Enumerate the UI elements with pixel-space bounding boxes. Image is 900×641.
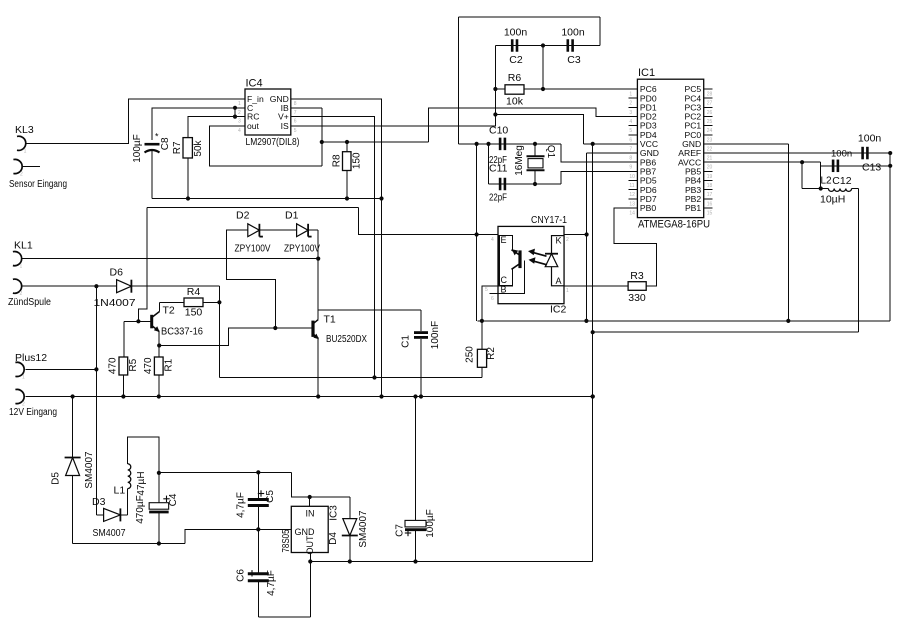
svg-text:SM4007: SM4007 <box>93 527 126 539</box>
svg-text:D2: D2 <box>236 210 250 222</box>
svg-text:8: 8 <box>629 156 632 162</box>
svg-text:R7: R7 <box>172 141 183 154</box>
svg-text:26: 26 <box>707 110 713 116</box>
svg-text:14: 14 <box>629 210 635 216</box>
svg-text:R2: R2 <box>486 347 497 360</box>
svg-text:6: 6 <box>491 296 494 302</box>
svg-text:D4: D4 <box>328 532 339 545</box>
svg-text:22: 22 <box>707 146 713 152</box>
svg-text:4,7µF: 4,7µF <box>266 570 277 596</box>
svg-text:100n: 100n <box>561 27 585 39</box>
svg-text:6: 6 <box>629 137 632 143</box>
svg-text:6: 6 <box>294 119 297 125</box>
svg-text:470: 470 <box>143 357 154 374</box>
svg-text:*: * <box>155 132 159 142</box>
svg-text:5: 5 <box>629 128 632 134</box>
svg-text:OUT: OUT <box>305 535 315 555</box>
svg-text:C7: C7 <box>395 524 406 537</box>
svg-text:24: 24 <box>707 128 713 134</box>
svg-text:C13: C13 <box>862 162 881 174</box>
svg-text:C6: C6 <box>236 569 247 582</box>
svg-text:KL1: KL1 <box>14 240 33 252</box>
svg-text:4: 4 <box>491 237 494 243</box>
svg-text:7: 7 <box>294 110 297 116</box>
svg-text:K: K <box>555 236 561 246</box>
svg-text:out: out <box>247 121 260 131</box>
svg-text:78S05: 78S05 <box>281 529 292 552</box>
svg-text:T1: T1 <box>324 314 336 326</box>
svg-text:22pF: 22pF <box>489 193 507 204</box>
svg-text:C: C <box>501 275 508 285</box>
svg-text:R6: R6 <box>508 72 522 84</box>
svg-text:L1: L1 <box>114 485 126 497</box>
svg-text:10k: 10k <box>506 96 524 108</box>
svg-text:IC3: IC3 <box>329 505 340 521</box>
svg-text:R8: R8 <box>332 154 343 167</box>
svg-text:17: 17 <box>707 192 713 198</box>
svg-text:47µH: 47µH <box>136 471 147 495</box>
svg-text:2: 2 <box>629 101 632 107</box>
svg-text:D6: D6 <box>110 267 124 279</box>
svg-text:ZPY100V: ZPY100V <box>235 244 271 255</box>
svg-text:C4: C4 <box>168 493 179 506</box>
svg-text:13: 13 <box>629 201 635 207</box>
svg-text:250: 250 <box>465 346 476 363</box>
svg-text:IC1: IC1 <box>638 67 655 79</box>
svg-text:21: 21 <box>707 156 713 162</box>
svg-text:C8: C8 <box>160 137 171 150</box>
svg-text:R4: R4 <box>187 286 201 298</box>
svg-text:330: 330 <box>628 292 646 304</box>
svg-text:A: A <box>555 276 561 286</box>
svg-text:GND: GND <box>295 527 316 537</box>
svg-text:2: 2 <box>566 237 569 243</box>
svg-text:100µF: 100µF <box>132 134 143 163</box>
svg-text:ZündSpule: ZündSpule <box>8 297 51 308</box>
svg-text:IN: IN <box>306 509 315 519</box>
svg-text:100µF: 100µF <box>425 509 436 538</box>
svg-text:100n: 100n <box>504 27 528 39</box>
svg-text:16: 16 <box>707 201 713 207</box>
svg-text:D3: D3 <box>92 496 106 508</box>
svg-text:C5: C5 <box>265 490 276 503</box>
svg-text:4: 4 <box>238 128 241 134</box>
svg-text:20: 20 <box>707 165 713 171</box>
svg-text:1: 1 <box>24 148 27 154</box>
svg-text:BC337-16: BC337-16 <box>161 327 203 338</box>
svg-text:BU2520DX: BU2520DX <box>326 334 367 345</box>
svg-text:3: 3 <box>629 110 632 116</box>
svg-text:1N4007: 1N4007 <box>94 297 136 309</box>
svg-text:IS: IS <box>281 121 289 131</box>
svg-text:C3: C3 <box>567 54 581 66</box>
svg-text:LM2907(DIL8): LM2907(DIL8) <box>246 136 300 148</box>
svg-text:15: 15 <box>707 210 713 216</box>
svg-text:27: 27 <box>707 101 713 107</box>
svg-text:CNY17-1: CNY17-1 <box>531 214 567 226</box>
svg-text:10: 10 <box>629 174 635 180</box>
svg-text:12: 12 <box>629 192 635 198</box>
svg-text:R5: R5 <box>128 358 139 371</box>
svg-text:PB0: PB0 <box>640 203 656 213</box>
svg-text:50k: 50k <box>193 139 204 156</box>
svg-text:5: 5 <box>294 128 297 134</box>
svg-text:100n: 100n <box>858 133 882 145</box>
svg-text:Q1: Q1 <box>545 145 556 159</box>
svg-text:E: E <box>501 235 507 245</box>
svg-text:C12: C12 <box>832 175 851 187</box>
svg-text:10µH: 10µH <box>820 194 845 206</box>
svg-text:100nF: 100nF <box>430 321 441 349</box>
svg-text:C10: C10 <box>489 125 508 137</box>
svg-text:Plus12: Plus12 <box>15 352 47 364</box>
svg-text:23: 23 <box>707 137 713 143</box>
svg-text:4,7µF: 4,7µF <box>236 492 247 518</box>
svg-text:3: 3 <box>238 119 241 125</box>
svg-text:C2: C2 <box>509 54 523 66</box>
svg-text:C11: C11 <box>489 163 508 175</box>
svg-text:ZPY100V: ZPY100V <box>284 244 320 255</box>
svg-text:IC4: IC4 <box>246 78 263 90</box>
svg-text:IC2: IC2 <box>550 304 567 316</box>
svg-text:R1: R1 <box>164 358 175 371</box>
svg-text:R3: R3 <box>630 270 644 282</box>
svg-text:11: 11 <box>629 183 634 189</box>
svg-text:19: 19 <box>707 174 713 180</box>
svg-text:D5: D5 <box>51 472 62 485</box>
svg-text:2: 2 <box>238 110 241 116</box>
svg-text:1: 1 <box>20 264 23 270</box>
svg-text:1: 1 <box>238 101 241 107</box>
svg-text:150: 150 <box>185 307 203 319</box>
svg-text:1: 1 <box>629 92 632 98</box>
svg-text:150: 150 <box>352 152 363 169</box>
svg-text:5: 5 <box>485 287 488 293</box>
svg-text:16Meg: 16Meg <box>514 145 525 176</box>
svg-text:ATMEGA8-16PU: ATMEGA8-16PU <box>638 219 710 231</box>
svg-text:T2: T2 <box>163 305 175 317</box>
svg-text:SM4007: SM4007 <box>84 451 95 489</box>
svg-text:8: 8 <box>294 101 297 107</box>
svg-text:Sensor Eingang: Sensor Eingang <box>9 179 67 190</box>
svg-text:PB1: PB1 <box>685 203 701 213</box>
svg-text:12V Eingang: 12V Eingang <box>9 407 57 418</box>
svg-text:1: 1 <box>22 374 25 380</box>
svg-text:28: 28 <box>707 92 713 98</box>
svg-text:25: 25 <box>707 119 713 125</box>
svg-text:D1: D1 <box>285 210 299 222</box>
svg-text:C1: C1 <box>401 335 412 348</box>
svg-text:470: 470 <box>108 357 119 374</box>
svg-text:7: 7 <box>629 146 632 152</box>
svg-text:B: B <box>501 285 507 295</box>
svg-text:4: 4 <box>629 119 632 125</box>
svg-text:470µF: 470µF <box>135 495 146 524</box>
svg-text:SM4007: SM4007 <box>358 510 369 548</box>
svg-text:18: 18 <box>707 183 713 189</box>
svg-text:L2: L2 <box>821 175 833 186</box>
svg-text:2: 2 <box>20 172 23 178</box>
svg-text:KL3: KL3 <box>15 124 34 136</box>
svg-text:9: 9 <box>629 165 632 171</box>
svg-text:1: 1 <box>566 288 569 294</box>
svg-text:100n: 100n <box>831 149 852 160</box>
